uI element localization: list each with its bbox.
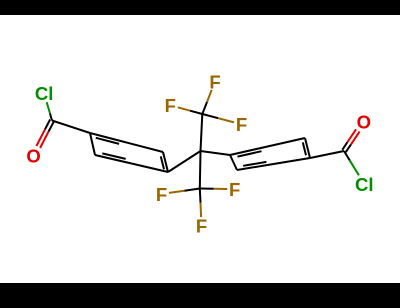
ring L edge C4-C5 xyxy=(132,164,169,173)
double bond C=O left xyxy=(36,120,54,149)
svg-text:F: F xyxy=(196,215,207,236)
ring L edge C2-C3 xyxy=(127,143,164,153)
bond C-F bottom-right xyxy=(200,188,227,191)
ring L edge C5-C6 double xyxy=(95,153,132,163)
bond C-F top-right xyxy=(202,114,234,122)
svg-text:F: F xyxy=(236,114,247,135)
ring R edge C2-C3 xyxy=(268,138,306,147)
bond centralC-top CF3 C xyxy=(201,114,203,151)
bond centralC-bottom CF3 C xyxy=(199,151,202,189)
bond C-F top xyxy=(202,90,211,114)
svg-text:F: F xyxy=(165,95,176,116)
bond ringL-central C xyxy=(168,151,201,172)
ring R edge C6-C1 xyxy=(230,155,237,170)
ring R edge C1-C2 double xyxy=(230,147,268,157)
bond C-F bottom-left xyxy=(169,189,200,193)
svg-text:O: O xyxy=(357,111,371,132)
bottom letterbox bar xyxy=(0,283,400,308)
ring R edge C5-C6 double xyxy=(237,162,274,170)
ring R edge C3-C4 double xyxy=(303,138,310,158)
bond C-F bottom xyxy=(200,189,201,218)
ring L edge C6-C1 xyxy=(90,133,95,155)
bond Cl-C left xyxy=(47,102,52,120)
svg-text:Cl: Cl xyxy=(35,83,54,104)
bond ringR-acyl C xyxy=(310,151,344,158)
svg-text:F: F xyxy=(156,184,167,205)
svg-text:F: F xyxy=(229,179,240,200)
svg-text:O: O xyxy=(26,146,40,167)
ring L edge C3-C4 double xyxy=(161,152,168,172)
svg-text:F: F xyxy=(209,71,220,92)
top letterbox bar xyxy=(0,0,400,15)
ring L edge C1-C2 double xyxy=(90,133,127,144)
svg-text:Cl: Cl xyxy=(355,174,374,195)
double bond C=O right xyxy=(342,129,359,152)
bond C-F top-left xyxy=(178,107,203,114)
bond centralC-ringR xyxy=(201,151,231,155)
bond C-Cl right xyxy=(344,151,359,175)
bond acylC-ring left xyxy=(52,121,90,134)
ring R edge C4-C5 xyxy=(274,158,311,164)
